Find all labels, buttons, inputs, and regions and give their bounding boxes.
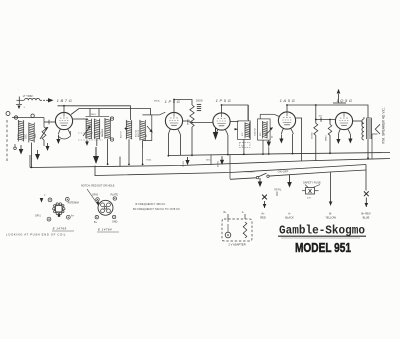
svg-text:BC FREQUENCY 540 KC TO 1725 K: BC FREQUENCY 540 KC TO 1725 KC [133,208,180,211]
svg-text:REG.: REG. [91,114,97,116]
svg-text:A+: A+ [261,212,265,216]
svg-text:75Ω: 75Ω [241,144,245,147]
svg-text:5MEG: 5MEG [188,119,190,125]
svg-text:1Q5G: 1Q5G [336,98,353,103]
svg-text:YELLOW: YELLOW [325,216,336,220]
svg-text:78 FIL: 78 FIL [183,160,185,167]
svg-text:E1477: E1477 [18,133,20,140]
svg-text:1B7G: 1B7G [57,98,74,103]
svg-text:A-: A- [288,212,291,216]
svg-text:GR-D: GR-D [92,194,98,197]
svg-text:E14772: E14772 [138,129,140,137]
svg-text:750Ω: 750Ω [146,159,152,162]
svg-text:LT TRIM: LT TRIM [23,94,33,98]
svg-text:2 V ADAPTER: 2 V ADAPTER [228,243,245,247]
svg-text:E 14764: E 14764 [98,227,112,231]
svg-text:78 FIL: 78 FIL [274,188,282,192]
svg-text:BLUE: BLUE [363,216,370,220]
svg-text:P.M. SPEAKER 4Ω V.C.: P.M. SPEAKER 4Ω V.C. [382,107,386,143]
svg-text:BLACK: BLACK [285,216,294,220]
svg-text:1A5G: 1A5G [280,98,297,103]
svg-text:RED: RED [260,216,266,220]
svg-text:E14722: E14722 [136,129,138,137]
svg-text:IF FREQUENCY 456 KC: IF FREQUENCY 456 KC [135,203,165,206]
svg-text:500000: 500000 [311,131,313,139]
svg-text:Gamble-Skogmo: Gamble-Skogmo [279,225,365,238]
svg-text:ON-OFF: ON-OFF [278,170,289,174]
svg-text:1P5G: 1P5G [216,98,233,103]
svg-text:E14777: E14777 [121,130,123,138]
svg-text:PADDER: PADDER [101,128,104,137]
svg-text:B+ REV: B+ REV [361,212,371,216]
svg-text:E 14769: E 14769 [53,226,67,230]
svg-text:NOTCH, RED DOT OR HOLE: NOTCH, RED DOT OR HOLE [81,185,115,188]
svg-text:50000: 50000 [196,100,203,103]
svg-text:45V: 45V [319,116,323,118]
svg-text:52A: 52A [34,133,37,138]
svg-text:GND: GND [112,221,118,224]
svg-text:A-: A- [242,211,245,214]
svg-text:ANTENNA: ANTENNA [68,201,80,204]
svg-text:2MEG: 2MEG [326,135,328,141]
svg-text:B-: B- [329,212,332,216]
svg-text:MICA: MICA [154,100,160,103]
svg-text:MODEL 951: MODEL 951 [295,240,351,255]
svg-text:45 FIL: 45 FIL [218,160,220,167]
svg-text:PLATE: PLATE [111,193,119,196]
svg-text:PRIMARY: PRIMARY [245,170,255,173]
svg-text:SAFETY FUSE: SAFETY FUSE [303,181,321,185]
svg-text:SEC.: SEC. [206,160,211,162]
svg-text:47Ω: 47Ω [307,197,311,200]
svg-text:OSC: OSC [24,134,27,139]
svg-text:LOOKING AT PUSH END OF COIL: LOOKING AT PUSH END OF COIL [6,232,66,236]
svg-text:E14763: E14763 [254,127,256,135]
svg-text:GR-1: GR-1 [35,214,41,217]
